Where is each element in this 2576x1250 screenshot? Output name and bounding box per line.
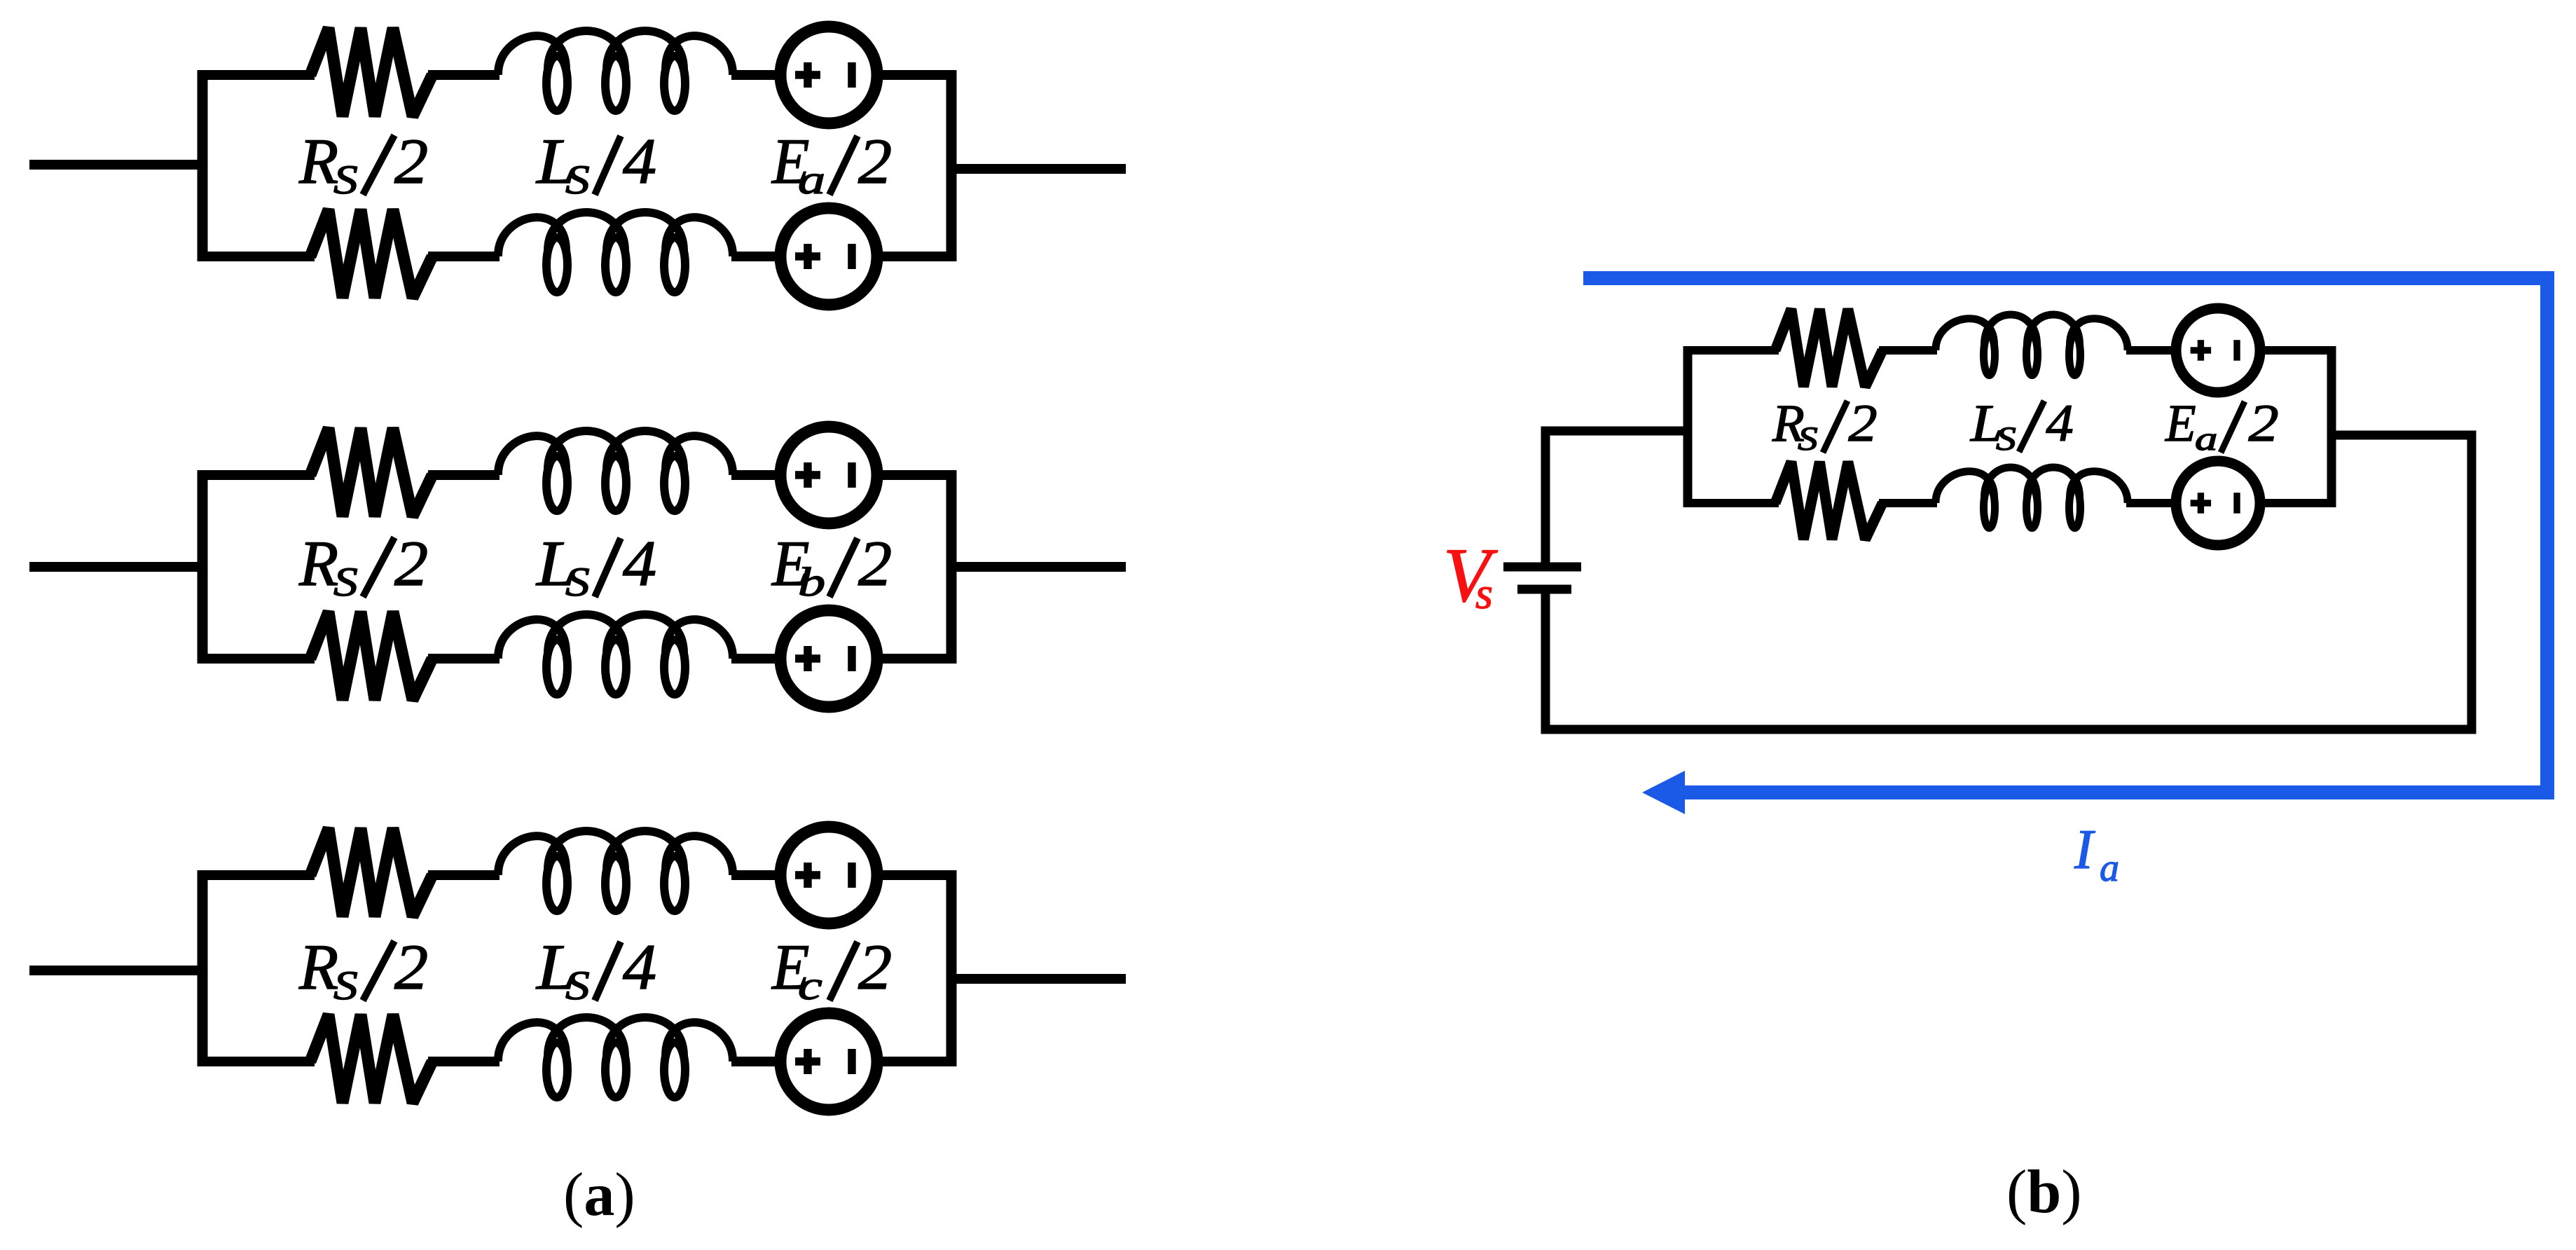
svg-text:a: a — [798, 158, 825, 202]
svg-text:R: R — [298, 528, 338, 599]
svg-text:(a): (a) — [563, 1161, 635, 1229]
svg-text:2: 2 — [1848, 394, 1877, 453]
svg-text:4: 4 — [623, 932, 656, 1003]
svg-text:2: 2 — [394, 126, 428, 197]
svg-text:2: 2 — [2248, 394, 2278, 453]
svg-text:2: 2 — [394, 528, 428, 599]
svg-text:2: 2 — [394, 932, 428, 1003]
svg-text:R: R — [298, 931, 338, 1003]
svg-text:S: S — [565, 963, 590, 1008]
svg-text:2: 2 — [858, 932, 892, 1003]
svg-text:Vs: Vs — [1443, 533, 1498, 618]
svg-text:S: S — [333, 963, 358, 1008]
svg-text:2: 2 — [858, 126, 892, 197]
svg-text:R: R — [298, 125, 338, 197]
svg-text:S: S — [333, 559, 358, 604]
svg-text:S: S — [565, 559, 590, 604]
svg-text:S: S — [565, 157, 590, 202]
svg-text:4: 4 — [623, 528, 656, 599]
svg-text:E: E — [2165, 394, 2196, 452]
svg-text:4: 4 — [2046, 394, 2073, 453]
svg-text:2: 2 — [858, 528, 892, 599]
svg-text:(b): (b) — [2006, 1158, 2082, 1226]
svg-text:S: S — [333, 157, 358, 202]
svg-text:c: c — [798, 963, 822, 1008]
svg-text:S: S — [1996, 420, 2016, 458]
svg-text:S: S — [1798, 420, 1818, 458]
svg-text:b: b — [798, 560, 825, 605]
svg-text:4: 4 — [623, 126, 656, 197]
svg-text:a: a — [2195, 420, 2217, 458]
